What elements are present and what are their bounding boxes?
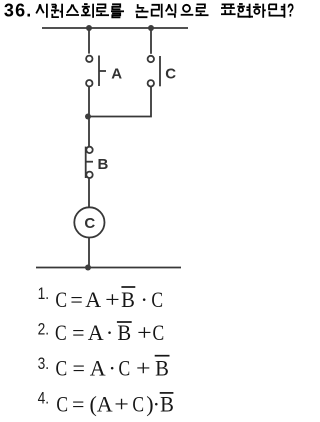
svg-text:A: A [97,391,113,416]
svg-text:2.: 2. [38,320,50,339]
svg-text:=: = [72,320,84,345]
svg-text:B: B [98,156,109,173]
svg-text:·: · [108,356,115,381]
svg-text:·: · [153,391,160,416]
svg-text:3.: 3. [38,354,50,373]
svg-text:=: = [72,356,84,381]
svg-text:C: C [153,320,165,345]
svg-text:(: ( [90,391,97,416]
svg-text:A: A [85,287,101,312]
svg-text:=: = [70,287,82,312]
svg-text:4.: 4. [38,389,50,408]
svg-text:=: = [72,391,84,416]
svg-text:C: C [55,287,67,312]
svg-text:C: C [56,356,68,381]
svg-text:·: · [140,287,147,312]
svg-text:C: C [55,320,67,345]
svg-text:+: + [105,287,120,312]
svg-text:B: B [117,320,131,345]
svg-text:?: ? [287,1,294,21]
svg-text:A: A [111,66,122,83]
svg-text:+: + [136,356,151,381]
svg-text:·: · [106,320,113,345]
svg-text:B: B [121,287,135,312]
svg-text:+: + [114,391,129,416]
svg-text:C: C [165,65,176,82]
svg-text:C: C [151,287,163,312]
svg-text:A: A [88,320,104,345]
svg-text:C: C [119,356,131,381]
svg-text:36.: 36. [4,1,33,21]
svg-text:A: A [90,356,106,381]
svg-text:C: C [84,215,95,232]
svg-text:C: C [56,391,68,416]
svg-text:B: B [155,356,169,381]
svg-text:+: + [137,320,152,345]
svg-text:C: C [132,391,144,416]
svg-text:1.: 1. [38,284,50,303]
svg-text:B: B [160,391,174,416]
